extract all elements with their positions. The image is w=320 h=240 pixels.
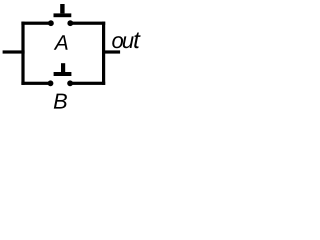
- switch S2 left terminal dot: [48, 80, 54, 86]
- wire: right vertical bus: [102, 22, 105, 85]
- switch S1 right terminal dot: [67, 20, 73, 26]
- wire: bottom branch left segment: [21, 82, 50, 85]
- switch S1 left terminal dot: [48, 20, 54, 26]
- wire: input lead from left: [3, 50, 25, 53]
- wire: output lead to the right: [102, 50, 120, 53]
- svg-text:t: t: [133, 27, 141, 54]
- wire: top branch left segment: [21, 22, 51, 25]
- wire: left vertical bus: [21, 22, 24, 85]
- svg-text:B: B: [53, 89, 68, 114]
- net label out: [111, 27, 141, 54]
- pushbutton S2 actuator (stem and contact bar): [54, 63, 72, 76]
- wire: top branch right segment: [70, 22, 105, 25]
- svg-text:A: A: [53, 32, 69, 55]
- wire: bottom branch right segment: [70, 82, 105, 85]
- switch S2 right terminal dot: [67, 80, 73, 86]
- pushbutton S1 actuator (stem and contact bar): [54, 4, 72, 17]
